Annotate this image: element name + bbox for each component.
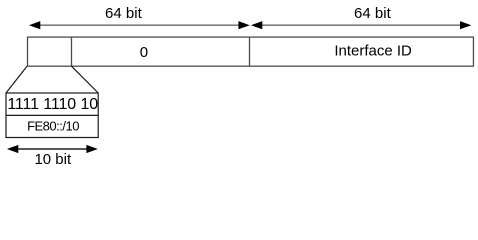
svg-text:0: 0: [140, 44, 148, 61]
divider: prefix detail rows: [6, 114, 98, 116]
svg-text:10 bit: 10 bit: [34, 151, 72, 168]
svg-text:64 bit: 64 bit: [105, 5, 143, 22]
divider: prefix / zero field: [71, 37, 73, 66]
expansion line: left: [6, 66, 27, 93]
svg-text:1111 1110 10: 1111 1110 10: [7, 96, 98, 113]
field box: 128-bit address rectangle: [28, 37, 474, 66]
svg-text:Interface ID: Interface ID: [334, 43, 412, 60]
box: prefix detail (two rows): [6, 93, 98, 138]
dimension arrow: 10 bit span: [7, 145, 98, 153]
dimension arrow: right 64 bit span: [251, 21, 472, 29]
svg-text:FE80::/10: FE80::/10: [27, 118, 79, 133]
expansion line: right: [72, 66, 99, 93]
dimension arrow: left 64 bit span: [29, 21, 250, 29]
svg-text:64 bit: 64 bit: [354, 5, 392, 22]
divider: zero field / interface id: [249, 37, 251, 66]
